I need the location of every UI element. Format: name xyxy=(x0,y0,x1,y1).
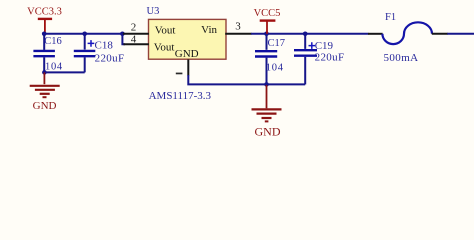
svg-text:VCC5: VCC5 xyxy=(254,8,281,19)
svg-text:Vin: Vin xyxy=(201,24,217,36)
op-amp U3 regulator AMS1117-3.3 xyxy=(147,6,227,102)
capacitor C16 xyxy=(33,34,62,72)
capacitor C18 xyxy=(74,34,125,72)
svg-text:104: 104 xyxy=(266,62,284,73)
svg-text:F1: F1 xyxy=(385,12,396,23)
svg-text:C19: C19 xyxy=(315,40,334,52)
svg-text:4: 4 xyxy=(131,33,137,45)
svg-text:220uF: 220uF xyxy=(95,52,125,64)
svg-text:AMS1117-3.3: AMS1117-3.3 xyxy=(149,90,212,102)
ground GND left xyxy=(30,72,60,112)
pin 4 of U3 xyxy=(123,43,148,45)
capacitor C19 xyxy=(294,34,344,84)
ground GND right xyxy=(252,85,282,138)
svg-text:C18: C18 xyxy=(95,40,114,52)
svg-text:Vout: Vout xyxy=(155,24,176,36)
pin 1 of U3 (GND, number rotated) xyxy=(187,59,189,75)
power port VCC5 xyxy=(254,8,281,34)
node junction pin2/pin4 xyxy=(120,32,125,37)
svg-text:3: 3 xyxy=(235,21,241,33)
wire U3 GND pin to bottom rail xyxy=(188,75,305,84)
svg-text:VCC3.3: VCC3.3 xyxy=(27,6,62,17)
capacitor C17 xyxy=(255,34,285,84)
svg-text:U3: U3 xyxy=(147,6,160,17)
svg-text:Vout: Vout xyxy=(154,41,175,53)
fuse F1 xyxy=(368,12,448,64)
svg-text:GND: GND xyxy=(255,124,281,138)
svg-text:GND: GND xyxy=(175,48,199,60)
node junction left gnd xyxy=(42,70,47,75)
node junction VCC5 xyxy=(264,32,269,37)
wire fuse to right edge xyxy=(447,33,474,35)
node junction right gnd xyxy=(264,82,269,87)
pin 2 of U3 xyxy=(123,33,149,35)
pin 3 of U3 xyxy=(225,33,251,35)
node junction C18 tap xyxy=(82,32,87,37)
svg-text:GND: GND xyxy=(33,100,57,112)
wire VCC3.3 rail to U3 xyxy=(44,33,122,35)
power port VCC3.3 xyxy=(27,6,62,33)
svg-text:220uF: 220uF xyxy=(315,51,345,63)
svg-text:2: 2 xyxy=(131,21,137,33)
node junction at VCC3.3 xyxy=(42,32,47,37)
wire U3 Vin to fuse xyxy=(251,33,368,35)
wire branch down to pin 4 xyxy=(122,34,125,44)
svg-text:500mA: 500mA xyxy=(384,52,419,64)
svg-text:C17: C17 xyxy=(268,38,286,49)
svg-text:104: 104 xyxy=(45,61,63,72)
wire bottom-left gnd rail xyxy=(44,71,84,73)
svg-text:C16: C16 xyxy=(44,36,62,47)
node junction C19 tap xyxy=(303,32,308,37)
